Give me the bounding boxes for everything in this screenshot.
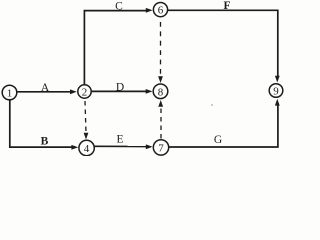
svg-text:A: A	[41, 82, 50, 94]
node 1	[2, 85, 17, 100]
node 7	[153, 140, 168, 155]
wire: activity G (7 to 9)	[169, 99, 280, 147]
node 9	[269, 84, 283, 98]
node 8	[153, 84, 168, 99]
svg-text:4: 4	[84, 143, 90, 155]
svg-text:8: 8	[158, 87, 164, 99]
wire: dummy arrow 2 to 4 (dashed)	[84, 101, 89, 140]
wire: activity D (2 to 8)	[92, 89, 153, 94]
svg-text:F: F	[223, 0, 230, 12]
wire: activity A (1 to 2)	[18, 89, 77, 94]
svg-text:B: B	[41, 136, 49, 148]
wire: activity F (6 to 9)	[168, 10, 280, 82]
svg-text:D: D	[116, 82, 124, 94]
wire: activity B (1 to 4)	[10, 100, 78, 150]
wire: activity C (2 to 6)	[84, 8, 152, 85]
svg-text:1: 1	[7, 88, 13, 100]
svg-text:E: E	[116, 134, 123, 146]
svg-text:2: 2	[82, 87, 88, 99]
scan speck	[211, 104, 213, 106]
svg-text:9: 9	[273, 86, 279, 98]
svg-text:G: G	[214, 134, 222, 146]
node 6	[153, 3, 167, 17]
svg-text:C: C	[115, 0, 123, 12]
svg-text:7: 7	[158, 143, 164, 155]
wire: dummy arrow 7 to 8 (dashed)	[158, 100, 163, 139]
wire: activity E (4 to 7)	[95, 144, 153, 149]
svg-text:6: 6	[158, 5, 164, 17]
wire: dummy arrow 6 to 8 (dashed)	[158, 22, 163, 83]
node 2	[78, 85, 91, 99]
node 4	[79, 140, 94, 155]
